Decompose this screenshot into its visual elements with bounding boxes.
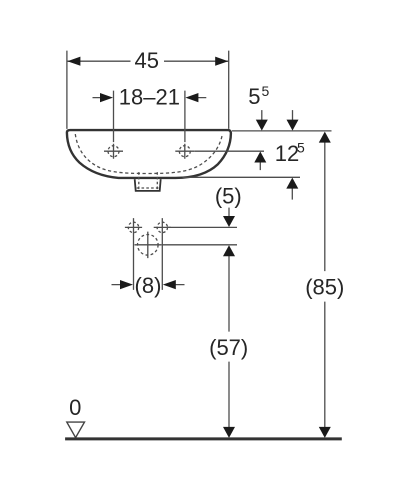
datum triangle bbox=[67, 422, 85, 438]
siphon line E bbox=[161, 244, 237, 246]
dimension 12.5 bbox=[275, 110, 305, 200]
svg-text:45: 45 bbox=[134, 48, 158, 73]
tap hole right bbox=[175, 144, 194, 159]
svg-text:5: 5 bbox=[262, 83, 270, 99]
dimension 5.5 bbox=[248, 83, 269, 170]
drain outlet hidden lines bbox=[137, 172, 159, 190]
fixing line D bbox=[167, 226, 237, 228]
svg-text:5: 5 bbox=[297, 140, 305, 156]
fixing hole left bbox=[125, 222, 142, 232]
dimension (5) bbox=[215, 184, 242, 227]
svg-text:12: 12 bbox=[275, 141, 299, 166]
siphon circle bbox=[135, 232, 162, 259]
svg-text:(85): (85) bbox=[305, 274, 344, 299]
fixing hole right bbox=[154, 222, 171, 232]
svg-text:(5): (5) bbox=[215, 184, 242, 209]
svg-text:(8): (8) bbox=[135, 273, 162, 298]
floor line bbox=[65, 437, 342, 440]
underside line C bbox=[183, 176, 301, 178]
svg-text:(57): (57) bbox=[209, 335, 248, 360]
svg-text:18–21: 18–21 bbox=[119, 85, 180, 110]
dimension 45 bbox=[67, 48, 229, 129]
tap axis line B bbox=[194, 150, 264, 152]
drain outlet bbox=[135, 179, 161, 191]
basin inner rim dashed bbox=[75, 134, 222, 173]
dimension (85) bbox=[305, 132, 344, 438]
svg-text:0: 0 bbox=[69, 395, 81, 420]
svg-text:5: 5 bbox=[248, 84, 260, 109]
dimension (8) bbox=[112, 218, 185, 298]
dimension (57) bbox=[209, 245, 248, 438]
basin outline bbox=[67, 130, 231, 178]
tap hole left bbox=[104, 144, 123, 159]
dimension 18-21 bbox=[93, 85, 207, 143]
rim reference line A bbox=[232, 130, 332, 132]
